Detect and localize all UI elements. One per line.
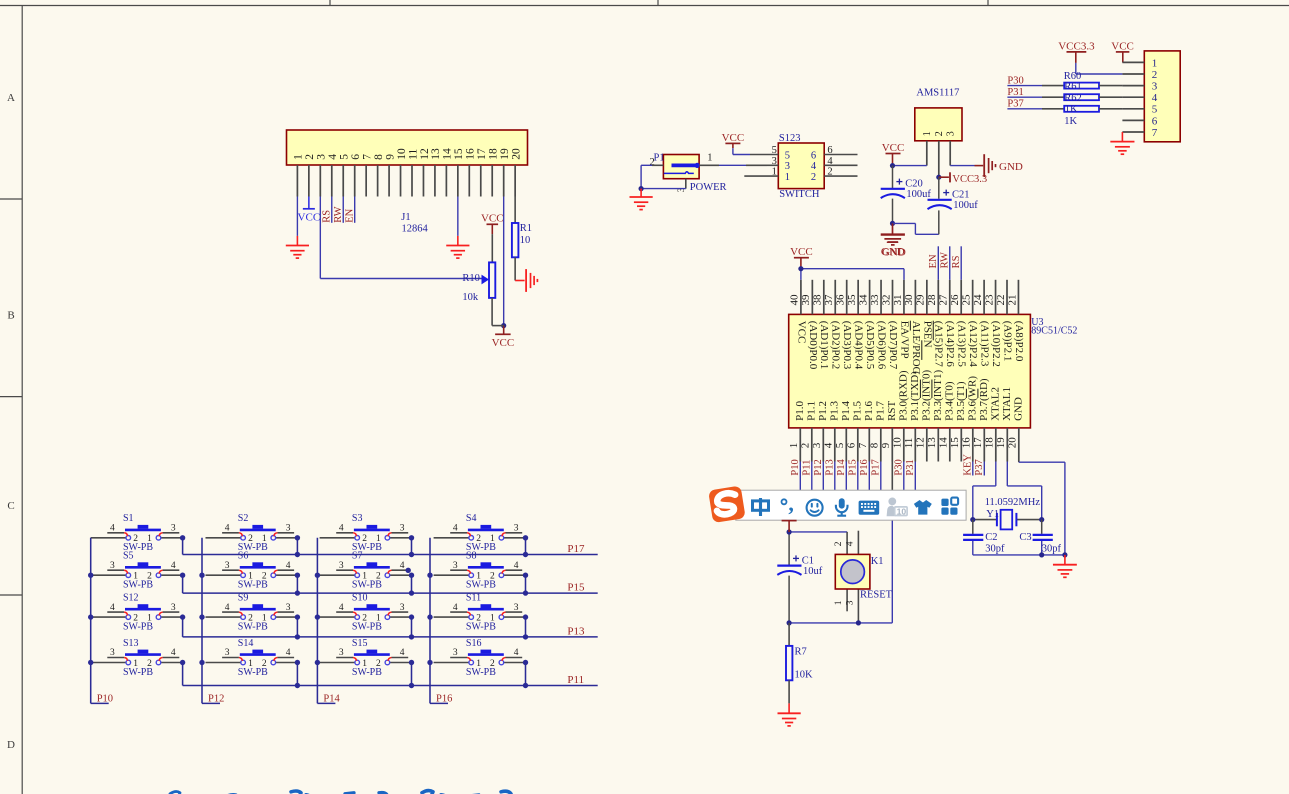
- junction S3 bus: [409, 552, 414, 557]
- switch S11 SW-PB: [434, 593, 526, 633]
- svg-text:3: 3: [772, 156, 777, 167]
- svg-text:20: 20: [510, 148, 522, 160]
- wire crystal ground rail: [973, 554, 1065, 556]
- svg-text:S16: S16: [466, 638, 482, 649]
- svg-text:2: 2: [490, 659, 495, 669]
- svg-text:2: 2: [248, 614, 253, 624]
- wire RST pin9 to reset rail (behind toolbar): [891, 491, 893, 623]
- junction P1 ground: [639, 186, 644, 191]
- column bus P10: [91, 538, 109, 704]
- svg-text:(A14)P2.6: (A14)P2.6: [944, 321, 956, 368]
- label J1 12864: [401, 212, 428, 235]
- svg-text:4: 4: [827, 156, 833, 167]
- svg-text:3: 3: [225, 561, 230, 571]
- wire reset rail: [789, 622, 892, 624]
- power port VCC3.3 at AMS output: [939, 172, 987, 185]
- U3 top pin numbers 40-21: [789, 294, 1019, 306]
- svg-text:(AD7)P0.7: (AD7)P0.7: [887, 321, 899, 370]
- svg-text:C3: C3: [1019, 532, 1031, 543]
- svg-text:P10: P10: [790, 459, 801, 475]
- svg-text:GND: GND: [882, 247, 906, 259]
- junction S16 bus: [523, 683, 528, 688]
- AMS1117 pin stubs: [927, 141, 950, 177]
- svg-text:RW: RW: [333, 206, 344, 222]
- junction S7 bus: [409, 590, 414, 595]
- svg-text:P16: P16: [859, 459, 870, 475]
- svg-text:P3.7(RD): P3.7(RD): [978, 378, 990, 421]
- svg-text:RST: RST: [886, 400, 898, 420]
- svg-text:P17: P17: [870, 459, 881, 475]
- svg-text:A: A: [7, 92, 15, 104]
- svg-text:S12: S12: [123, 593, 139, 604]
- switch S15 SW-PB: [320, 638, 412, 678]
- svg-text:P1.4: P1.4: [840, 401, 852, 421]
- svg-text:Y1: Y1: [986, 509, 999, 520]
- svg-text:3: 3: [514, 603, 519, 613]
- svg-text:P13: P13: [824, 459, 835, 475]
- svg-text:3: 3: [946, 131, 957, 136]
- svg-text:20: 20: [1007, 437, 1019, 449]
- svg-text:3: 3: [400, 603, 405, 613]
- connector header 7pin: [1144, 51, 1180, 142]
- svg-text:4: 4: [811, 161, 817, 172]
- svg-text:(AD6)P0.6: (AD6)P0.6: [875, 321, 887, 370]
- svg-text:5: 5: [785, 150, 790, 161]
- svg-text:23: 23: [983, 294, 995, 306]
- svg-text:P1.3: P1.3: [828, 401, 840, 421]
- svg-text:D: D: [7, 739, 15, 751]
- wire VCC to S123 pin5: [733, 148, 750, 154]
- svg-text:6: 6: [1152, 115, 1158, 127]
- wire S8 to row bus: [525, 575, 527, 593]
- wire S5 to row bus: [182, 575, 184, 593]
- svg-text:P3.5(T1): P3.5(T1): [955, 381, 967, 421]
- wire AMS pin3 to GND: [950, 165, 983, 167]
- junction VCC pin40: [798, 266, 803, 271]
- svg-text:P1.5: P1.5: [851, 401, 863, 421]
- svg-text:P12: P12: [813, 459, 824, 475]
- junction S15 bus: [409, 683, 414, 688]
- toolbar icon microphone: [836, 498, 848, 515]
- svg-text:S11: S11: [466, 593, 481, 604]
- junction S9 bus: [295, 634, 300, 639]
- power port VCC below pin19: [492, 326, 515, 349]
- svg-text:S3: S3: [352, 513, 363, 524]
- wire S1 to row bus: [182, 538, 184, 555]
- svg-text:10k: 10k: [462, 292, 479, 303]
- svg-text:VCC: VCC: [882, 142, 905, 154]
- svg-text:3: 3: [453, 648, 458, 658]
- svg-text:3: 3: [171, 603, 176, 613]
- svg-text:R10: R10: [462, 273, 480, 284]
- junction AMS pin2 / VCC3.3: [936, 175, 941, 180]
- junction col3 row2: [315, 573, 320, 578]
- svg-text:R7: R7: [795, 647, 807, 658]
- svg-text:J1: J1: [401, 212, 410, 223]
- svg-text:7: 7: [857, 442, 869, 448]
- column bus P12: [202, 538, 220, 704]
- svg-text:VCC: VCC: [722, 132, 745, 144]
- svg-text:4: 4: [327, 154, 339, 160]
- svg-text:(A8)P2.0: (A8)P2.0: [1013, 321, 1025, 362]
- junction col3 row4: [315, 660, 320, 665]
- wire P1 pin3 to ground junction: [641, 179, 686, 189]
- svg-text:K1: K1: [871, 556, 884, 567]
- sogou input toolbar: [736, 490, 966, 520]
- svg-text:(AD4)P0.4: (AD4)P0.4: [853, 321, 865, 370]
- U3 bottom pin names: [794, 370, 1025, 421]
- row bus P11: [183, 685, 598, 687]
- wires U3 pins16,17: [973, 462, 985, 476]
- svg-text:1: 1: [476, 572, 481, 582]
- junction VCC/C20: [890, 163, 895, 168]
- svg-text:4: 4: [171, 561, 176, 571]
- svg-text:2: 2: [834, 541, 844, 546]
- toolbar icon skin t-shirt: [914, 500, 932, 515]
- svg-text:10: 10: [396, 148, 408, 160]
- svg-text:4: 4: [339, 603, 344, 613]
- svg-text:2: 2: [811, 172, 816, 183]
- svg-text:5: 5: [339, 154, 351, 160]
- wires U3 pins1-11 down (behind toolbar): [800, 462, 915, 491]
- wire P1 pin1 to S123 pin3: [699, 164, 767, 166]
- resistor R61 1K: [1007, 83, 1122, 89]
- svg-text:4: 4: [225, 603, 230, 613]
- svg-text:S14: S14: [238, 638, 254, 649]
- svg-text:9: 9: [880, 442, 892, 448]
- svg-text:16: 16: [465, 148, 477, 160]
- switch S16 SW-PB: [434, 638, 526, 678]
- svg-text:2: 2: [133, 534, 138, 544]
- svg-text:2: 2: [476, 534, 481, 544]
- ground at R7: [778, 713, 801, 726]
- power port VCC at AMS1117 input: [882, 142, 905, 166]
- J1 pin stubs: [297, 165, 515, 197]
- svg-text:2: 2: [476, 614, 481, 624]
- wire S14 to row bus: [296, 663, 298, 686]
- ground at J1 pin1: [286, 246, 309, 259]
- svg-text:1: 1: [293, 154, 305, 160]
- junction VCC/C1: [787, 529, 792, 534]
- ground at crystal: [1053, 555, 1077, 577]
- svg-text:S9: S9: [238, 593, 249, 604]
- svg-text:S10: S10: [352, 593, 368, 604]
- svg-text:17: 17: [476, 148, 488, 160]
- junction col4 row3: [427, 614, 432, 619]
- svg-text:37: 37: [823, 294, 835, 306]
- switch S7 SW-PB: [320, 551, 412, 591]
- svg-text:1: 1: [362, 659, 367, 669]
- svg-text:4: 4: [823, 442, 835, 448]
- svg-text:4: 4: [286, 561, 291, 571]
- svg-text:RESET: RESET: [860, 590, 893, 601]
- junction S11 bus: [523, 634, 528, 639]
- svg-text:2: 2: [362, 534, 367, 544]
- svg-text:6: 6: [846, 442, 858, 448]
- power port VCC top right: [1111, 40, 1134, 62]
- svg-text:S5: S5: [123, 551, 134, 562]
- svg-text:7: 7: [1152, 127, 1158, 139]
- wire S3 to row bus: [411, 538, 413, 555]
- svg-text:40: 40: [789, 294, 801, 306]
- rotated ground at R1: [526, 269, 537, 292]
- toolbar icon menu grid: [941, 498, 958, 515]
- svg-text:VCC: VCC: [795, 321, 807, 344]
- wire S9 to row bus: [296, 617, 298, 637]
- svg-text:GND: GND: [1012, 397, 1024, 421]
- junction S10 pin: [409, 614, 414, 619]
- svg-text:2: 2: [934, 131, 945, 136]
- svg-text:1: 1: [133, 572, 138, 582]
- switch S3 SW-PB: [320, 513, 412, 553]
- capacitor C3 30pf: [1033, 520, 1053, 555]
- svg-text:11: 11: [407, 148, 419, 159]
- svg-text:24: 24: [972, 294, 984, 306]
- svg-text:34: 34: [857, 294, 869, 306]
- svg-text:10: 10: [520, 235, 531, 246]
- node XTAL1 crystal right: [1039, 517, 1044, 522]
- svg-text:22: 22: [995, 295, 1007, 306]
- svg-text:P37: P37: [1007, 99, 1023, 110]
- svg-text:10: 10: [897, 506, 907, 516]
- svg-text:1: 1: [248, 659, 253, 669]
- svg-text:VCC: VCC: [481, 213, 504, 225]
- rotated ground GND at AMS pin3: [984, 154, 1023, 177]
- junction at S7 pin4: [406, 568, 411, 573]
- row bus P15: [183, 592, 598, 594]
- svg-text:PSEN: PSEN: [921, 321, 933, 348]
- svg-text:33: 33: [869, 294, 881, 306]
- svg-text:21: 21: [1006, 295, 1018, 306]
- U3 bottom pin stubs: [800, 428, 1019, 462]
- svg-text:1: 1: [922, 131, 933, 136]
- svg-text:36: 36: [835, 294, 847, 306]
- junction S15 pin: [409, 660, 414, 665]
- svg-text:1: 1: [788, 443, 800, 449]
- power port VCC at U3 pin40: [790, 246, 813, 269]
- svg-text:6: 6: [811, 150, 816, 161]
- junction col2 row4: [199, 660, 204, 665]
- svg-text:100uf: 100uf: [953, 200, 978, 211]
- svg-text:AMS1117: AMS1117: [916, 87, 959, 98]
- wire S13 to row bus: [182, 663, 184, 686]
- power port VCC at reset (partly hidden): [782, 521, 797, 532]
- svg-text:2: 2: [650, 157, 655, 168]
- U3 bottom pin numbers 1-20: [788, 437, 1019, 449]
- svg-text:14: 14: [442, 148, 454, 160]
- junction col2 row2: [199, 573, 204, 578]
- capacitor C20 100uf: [881, 166, 932, 224]
- svg-text:(A9)P2.1: (A9)P2.1: [1001, 321, 1013, 362]
- switch S2 SW-PB: [206, 513, 298, 553]
- svg-text:P30: P30: [1007, 75, 1023, 86]
- svg-text:5: 5: [834, 442, 846, 448]
- svg-text:P14: P14: [323, 693, 340, 704]
- svg-text:SWITCH: SWITCH: [779, 189, 820, 200]
- svg-text:C20: C20: [905, 179, 923, 190]
- wire XTAL2 pin18 to crystal: [973, 462, 996, 520]
- svg-text:3: 3: [225, 648, 230, 658]
- wire J1 pin3 to R10 wiper: [320, 197, 481, 279]
- svg-text:P16: P16: [436, 693, 452, 704]
- svg-text:2: 2: [490, 572, 495, 582]
- junction S3 pin: [409, 535, 414, 540]
- svg-text:12: 12: [915, 437, 927, 448]
- switch S1 SW-PB: [91, 513, 183, 553]
- svg-text:35: 35: [846, 294, 858, 306]
- wire P1 pin2 to ground: [641, 165, 663, 188]
- svg-text:15: 15: [949, 437, 961, 449]
- svg-text:1: 1: [772, 167, 777, 178]
- svg-text:3: 3: [339, 561, 344, 571]
- svg-text:89C51/C52: 89C51/C52: [1031, 326, 1077, 337]
- svg-text:3: 3: [171, 524, 176, 534]
- svg-text:4: 4: [225, 524, 230, 534]
- svg-text:1: 1: [248, 572, 253, 582]
- svg-text:6: 6: [350, 154, 362, 160]
- svg-text:1: 1: [1152, 57, 1158, 69]
- svg-text:S15: S15: [352, 638, 368, 649]
- svg-text:1: 1: [476, 659, 481, 669]
- svg-text:2: 2: [376, 659, 381, 669]
- svg-text:S123: S123: [779, 133, 801, 144]
- svg-text:1: 1: [133, 659, 138, 669]
- svg-text:2: 2: [827, 167, 832, 178]
- svg-text:P3.1(TXD): P3.1(TXD): [909, 371, 921, 421]
- junction col2 row3: [199, 614, 204, 619]
- wires EN RW RS to U3: [938, 246, 961, 279]
- svg-text:7: 7: [361, 154, 373, 160]
- wire pin7 to ground: [1121, 132, 1123, 142]
- svg-text:1: 1: [362, 572, 367, 582]
- ground at J1 pin15: [446, 246, 469, 259]
- switch S4 SW-PB: [434, 513, 526, 553]
- svg-text:3: 3: [811, 442, 823, 448]
- switch S13 SW-PB: [91, 638, 183, 678]
- svg-text:P15: P15: [567, 582, 585, 594]
- wire R1 to rotated ground: [515, 257, 524, 280]
- svg-text:8: 8: [869, 442, 881, 448]
- svg-text:100uf: 100uf: [906, 189, 931, 200]
- svg-text:4: 4: [453, 603, 458, 613]
- wire J1 pin1 to ground: [296, 197, 298, 246]
- svg-text:3: 3: [785, 161, 790, 172]
- AMS1117 pin numbers 1,2,3: [922, 131, 956, 136]
- svg-text:26: 26: [949, 294, 961, 306]
- svg-text:1: 1: [262, 534, 267, 544]
- svg-text:C21: C21: [952, 190, 970, 201]
- junction S16 pin: [523, 660, 528, 665]
- svg-text:P11: P11: [801, 460, 812, 476]
- J1 pin numbers 1-20: [293, 148, 523, 160]
- svg-text:EN: EN: [928, 254, 939, 268]
- svg-text:39: 39: [800, 294, 812, 306]
- resistor R63 1K: [1007, 106, 1122, 112]
- svg-text:4: 4: [286, 648, 291, 658]
- sogou logo S: [708, 486, 746, 524]
- wire J1 pin15 to ground: [457, 197, 459, 246]
- svg-text:P37: P37: [974, 459, 985, 475]
- svg-text:RS: RS: [322, 210, 333, 223]
- svg-text:3: 3: [316, 154, 328, 160]
- net label GND with overline: [882, 242, 906, 258]
- svg-text:19: 19: [499, 148, 511, 160]
- switch S8 SW-PB: [434, 551, 526, 591]
- junction S11 pin: [523, 614, 528, 619]
- junction C3/rail: [1039, 552, 1044, 557]
- svg-text:4: 4: [171, 648, 176, 658]
- svg-text:P11: P11: [567, 674, 584, 686]
- wire XTAL1 pin19 to crystal: [1007, 462, 1041, 520]
- wire S15 to row bus: [411, 663, 413, 686]
- svg-text:11.0592MHz: 11.0592MHz: [985, 497, 1041, 508]
- wire GND pin20: [1019, 462, 1065, 555]
- svg-text:4: 4: [110, 524, 115, 534]
- svg-text:6: 6: [827, 145, 832, 156]
- 7pin connector stubs: [1122, 62, 1144, 132]
- resistor R1: [512, 223, 532, 257]
- wire U3 pin40: [800, 269, 802, 280]
- svg-text:4: 4: [845, 541, 855, 546]
- svg-text:P1.2: P1.2: [817, 401, 829, 421]
- wire S2 to row bus: [296, 538, 298, 555]
- wires J1 pins 4,5,6 (RS,RW,EN): [332, 197, 355, 223]
- svg-text:31: 31: [892, 295, 904, 306]
- svg-text:4: 4: [110, 603, 115, 613]
- svg-text:1K: 1K: [1065, 104, 1078, 115]
- svg-text:ALE/PROG: ALE/PROG: [910, 321, 922, 375]
- svg-text:S2: S2: [238, 513, 249, 524]
- svg-text:2: 2: [1152, 69, 1158, 81]
- MCU U3 89C51/C52: [789, 314, 1031, 428]
- capacitor C2 30pf: [963, 520, 983, 555]
- wire S6 to row bus: [296, 575, 298, 593]
- svg-text:29: 29: [915, 294, 927, 306]
- svg-text:30pf: 30pf: [985, 543, 1005, 554]
- wire R7 to ground: [788, 680, 790, 713]
- svg-text:S6: S6: [238, 551, 249, 562]
- junction S10 bus: [409, 634, 414, 639]
- svg-text:13: 13: [430, 148, 442, 160]
- junction col1 row4: [88, 660, 93, 665]
- svg-text:4: 4: [514, 648, 519, 658]
- svg-text:P30: P30: [893, 459, 904, 475]
- svg-text:2: 2: [248, 534, 253, 544]
- svg-text:P3.3(INT1): P3.3(INT1): [932, 370, 944, 421]
- svg-text:(AD0)P0.0: (AD0)P0.0: [807, 321, 819, 370]
- handwriting fragments (clipped): [170, 791, 521, 794]
- svg-text:(AD5)P0.5: (AD5)P0.5: [864, 321, 876, 370]
- svg-text:1: 1: [834, 600, 844, 605]
- svg-text:1: 1: [147, 614, 152, 624]
- resistor R7 10K: [786, 623, 813, 681]
- svg-text:18: 18: [984, 437, 996, 449]
- label U3 89C51/C52: [1031, 317, 1077, 336]
- junction S4 pin: [523, 535, 528, 540]
- svg-text:19: 19: [995, 437, 1007, 449]
- svg-text:(A10)P2.2: (A10)P2.2: [990, 321, 1002, 367]
- column bus P14: [317, 538, 335, 704]
- switch S5 SW-PB: [91, 551, 183, 591]
- svg-text:S13: S13: [123, 638, 139, 649]
- toolbar icon punctuation: [782, 491, 794, 516]
- svg-text:P3.2(INT0): P3.2(INT0): [920, 370, 932, 421]
- svg-text:4: 4: [400, 561, 405, 571]
- svg-text:P15: P15: [847, 459, 858, 475]
- svg-text:P13: P13: [567, 625, 585, 637]
- junction S6 bus: [295, 590, 300, 595]
- svg-text:1: 1: [707, 153, 712, 164]
